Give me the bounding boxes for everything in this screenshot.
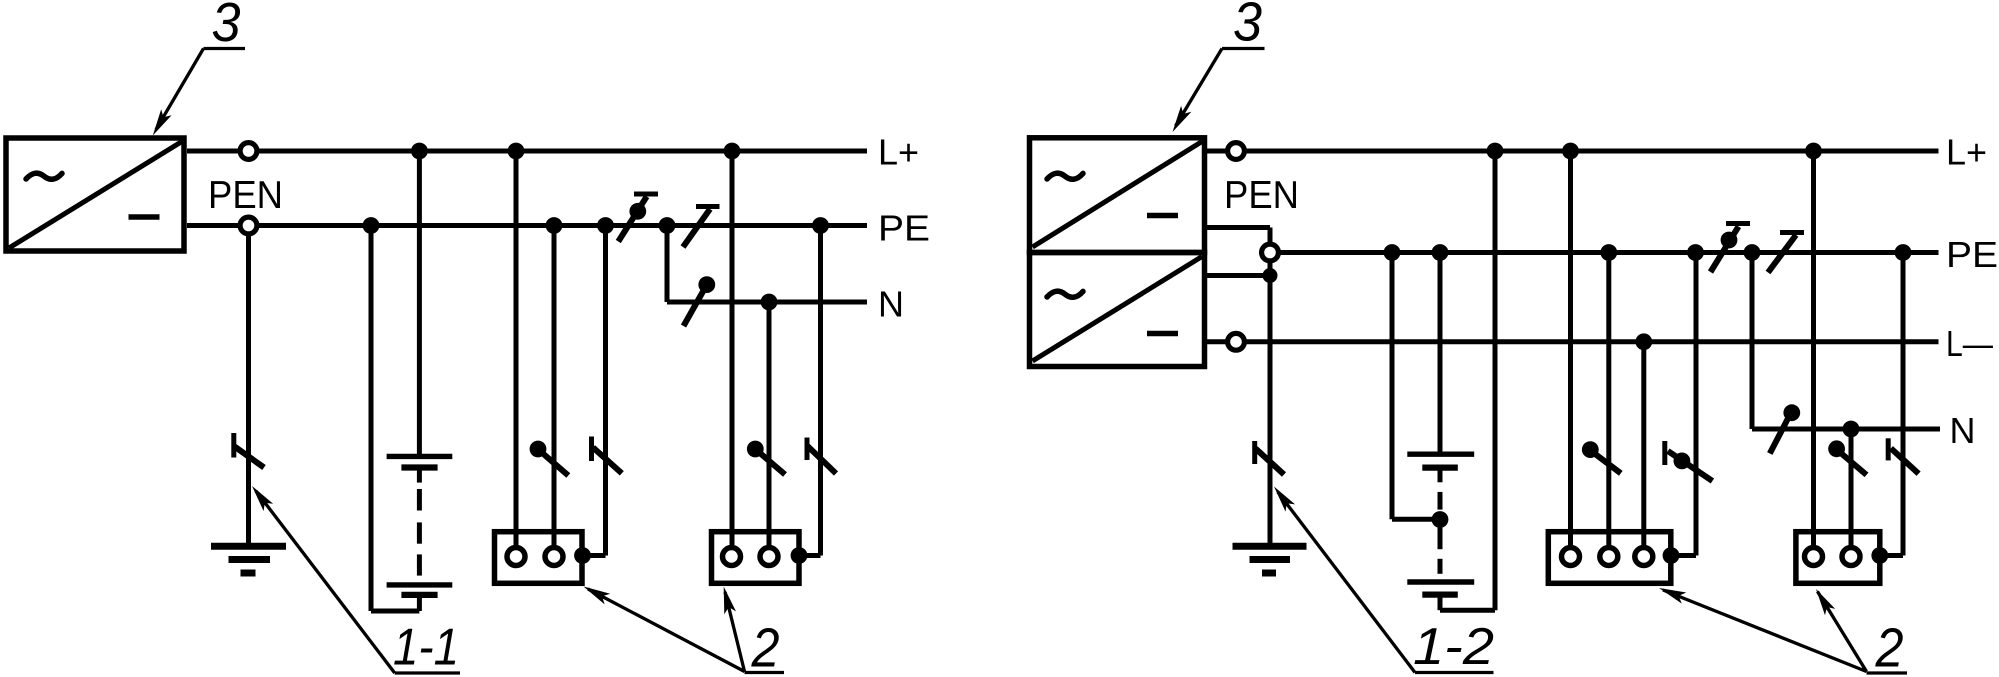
svg-text:L—: L— [1946, 323, 1993, 364]
svg-text:3: 3 [1233, 0, 1262, 53]
svg-text:L+: L+ [878, 132, 919, 173]
svg-text:PEN: PEN [208, 174, 283, 217]
svg-text:L+: L+ [1946, 132, 1987, 173]
svg-text:N: N [878, 284, 904, 325]
svg-text:2: 2 [1875, 617, 1904, 677]
svg-text:2: 2 [751, 617, 780, 677]
svg-text:PEN: PEN [1224, 174, 1299, 217]
svg-text:PE: PE [1946, 234, 1998, 275]
svg-text:1-2: 1-2 [1413, 618, 1494, 676]
svg-text:PE: PE [878, 208, 930, 249]
svg-text:3: 3 [212, 0, 241, 53]
svg-text:1-1: 1-1 [393, 619, 459, 677]
svg-text:N: N [1950, 410, 1976, 451]
